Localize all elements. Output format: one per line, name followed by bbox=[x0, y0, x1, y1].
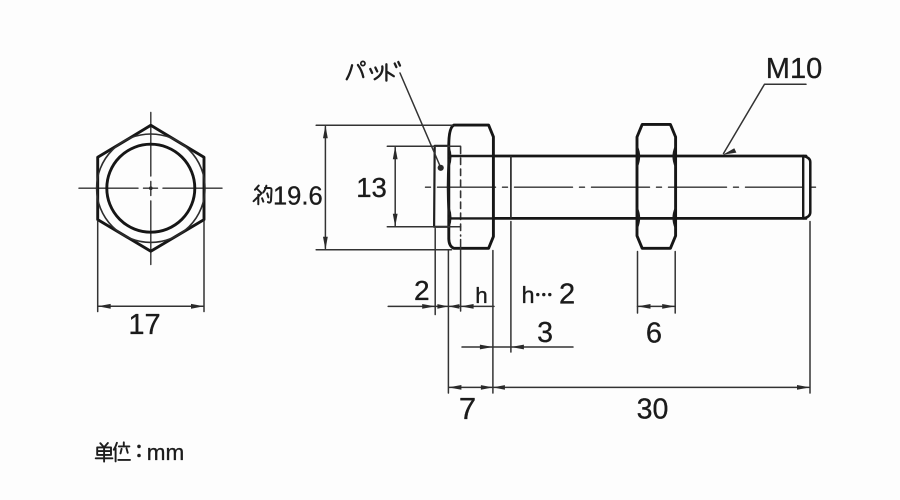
svg-text:M10: M10 bbox=[766, 53, 822, 85]
hex head front view (hexagon) bbox=[98, 125, 204, 251]
extension line pad right/head left bbox=[447, 251, 449, 394]
katakana pa bbox=[347, 65, 364, 79]
dimension line row2 (3) bbox=[462, 346, 573, 348]
extension line pad bottom (13) bbox=[387, 226, 460, 228]
center dot bbox=[149, 186, 153, 190]
arrow 19.6 bottom bbox=[323, 237, 328, 250]
extension line shaft end bbox=[809, 222, 811, 394]
svg-text:3: 3 bbox=[537, 317, 553, 349]
arrow 13 top bbox=[393, 146, 398, 159]
side view center line bbox=[421, 186, 823, 188]
dimension line 17 bbox=[99, 305, 204, 307]
katakana do bbox=[386, 62, 400, 81]
shaft end chamfer line bbox=[802, 157, 804, 219]
extension line right flat (17) bbox=[203, 221, 205, 312]
pad leader line bbox=[400, 73, 441, 168]
extension line pad left bbox=[434, 229, 436, 315]
extension line head bottom (19.6) bbox=[316, 249, 451, 251]
svg-text:2: 2 bbox=[414, 275, 430, 306]
arrow 6 left bbox=[638, 304, 651, 309]
katakana small tsu bbox=[370, 66, 382, 79]
extension line pad hidden face bbox=[460, 240, 462, 312]
kanji yaku (approx) bbox=[254, 186, 264, 205]
extension line left flat (17) bbox=[97, 221, 99, 312]
svg-text:13: 13 bbox=[356, 172, 387, 203]
arrow pair at pad right bbox=[437, 304, 459, 309]
nut left edge chamfer arc upper bbox=[637, 147, 639, 167]
nut left edge chamfer arc lower bbox=[637, 208, 639, 228]
extension line nut left bbox=[637, 252, 639, 314]
kanji i (kurai) bbox=[114, 442, 130, 461]
hex washer face circle (bold inner circle) bbox=[107, 144, 195, 232]
M10 leader line bbox=[724, 84, 807, 153]
M10 leader arrow bbox=[723, 148, 737, 155]
svg-text:17: 17 bbox=[128, 309, 160, 341]
fullwidth colon bbox=[137, 445, 141, 449]
extension line head top (19.6) bbox=[316, 124, 452, 126]
shaft upper silhouette line bbox=[493, 155, 806, 158]
svg-text:6: 6 bbox=[646, 318, 662, 350]
shaft end face bbox=[803, 156, 810, 218]
arrow 13 bottom bbox=[393, 214, 398, 227]
svg-text:h: h bbox=[475, 283, 488, 308]
hex nut side view outline bbox=[637, 124, 676, 248]
arrow 7 left bbox=[448, 385, 461, 390]
dimension line row1 (2 / h) bbox=[388, 305, 494, 307]
svg-text:30: 30 bbox=[637, 394, 669, 426]
head upper face edge line bbox=[450, 155, 494, 157]
pad (seal pad under head, side view) bbox=[434, 146, 449, 227]
label 19.6 with approx kanji bbox=[254, 186, 272, 205]
arrow 17 right bbox=[191, 304, 204, 309]
head lower face edge line bbox=[450, 217, 494, 219]
dimension line row3 (7 / 30) bbox=[449, 386, 809, 388]
svg-text:19.6: 19.6 bbox=[273, 183, 323, 211]
label pad (katakana) bbox=[347, 61, 400, 80]
front view horizontal center line bbox=[79, 187, 223, 189]
hex chamfer face arcs (outer thin circle) bbox=[97, 134, 205, 242]
arrow 3 left-pointing bbox=[511, 345, 524, 350]
dimension line 13 bbox=[394, 148, 396, 226]
nut right edge chamfer arc lower bbox=[673, 208, 675, 228]
svg-text:h: h bbox=[522, 282, 535, 308]
head left edge chamfer arc upper bbox=[449, 148, 451, 167]
thread start line bbox=[510, 157, 512, 219]
svg-text:mm: mm bbox=[147, 440, 185, 465]
arrow left-pointing at hidden face bbox=[461, 304, 474, 309]
arrow 19.6 top bbox=[323, 125, 328, 138]
arrow 7 right / 30 left pair bbox=[481, 385, 505, 390]
dimension line 19.6 bbox=[324, 127, 326, 249]
arrow 6 right bbox=[662, 304, 675, 309]
arrow 17 left bbox=[98, 304, 111, 309]
shaft lower silhouette line bbox=[493, 217, 806, 220]
extension line pad top (13) bbox=[387, 145, 460, 147]
head left edge chamfer arc lower bbox=[449, 208, 451, 227]
nut right edge chamfer arc upper bbox=[673, 147, 675, 167]
dimension line 6 (nut) bbox=[638, 305, 676, 307]
svg-text:2: 2 bbox=[559, 279, 575, 311]
extension line nut right bbox=[674, 252, 676, 314]
head left face bulge arc bbox=[447, 160, 450, 214]
pad leader dot bbox=[438, 165, 444, 171]
arrow 30 right bbox=[797, 385, 810, 390]
pad hidden face (dashed line inside head) bbox=[460, 147, 462, 236]
unit note: tan-i mm bbox=[96, 442, 141, 461]
arrow 3 right-pointing bbox=[480, 345, 493, 350]
extension line thread start bbox=[510, 222, 512, 353]
arrow 2 right-pointing at pad left bbox=[422, 304, 435, 309]
extension line head right bbox=[492, 251, 494, 394]
bolt head side view outline bbox=[449, 125, 494, 248]
kanji tan bbox=[96, 443, 113, 462]
svg-text:7: 7 bbox=[459, 391, 476, 426]
front view vertical center line bbox=[150, 113, 152, 265]
